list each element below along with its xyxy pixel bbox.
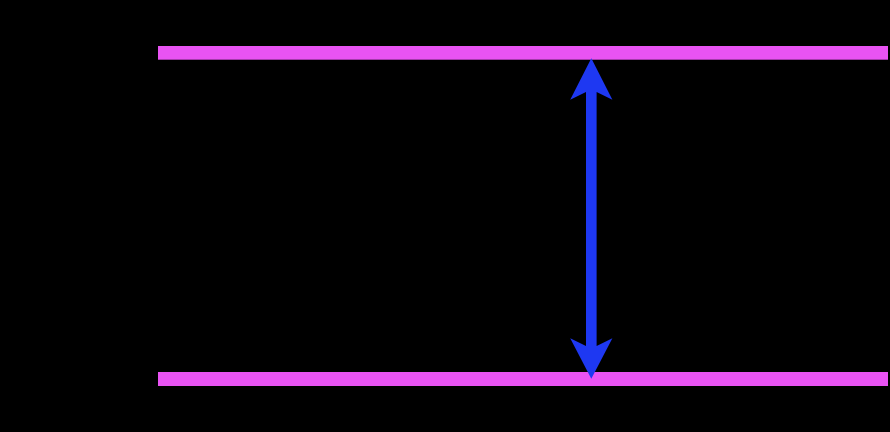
bottom plate: [158, 372, 888, 386]
separation arrow d (double-headed): [570, 58, 612, 379]
top plate: [158, 46, 888, 60]
